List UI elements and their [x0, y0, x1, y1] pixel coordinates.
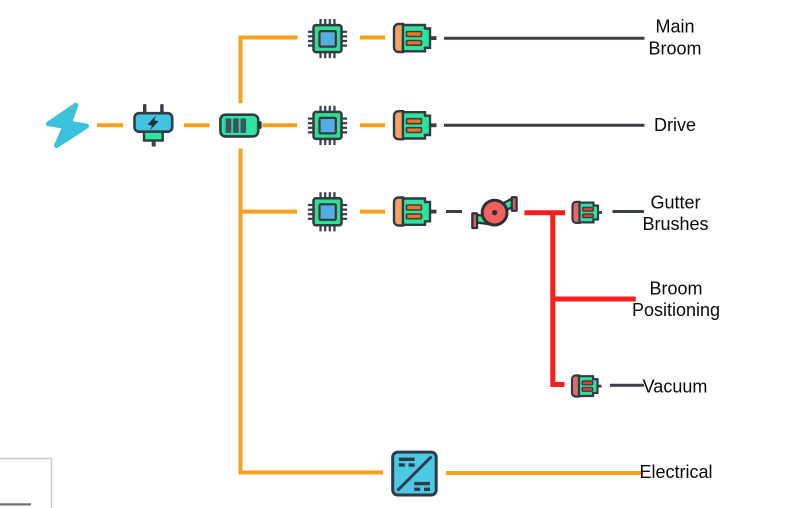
inverter U4 (DC/AC) — [393, 452, 437, 495]
vacuum motor M5 — [572, 376, 602, 397]
wire: orange dash row3 chip to motor — [360, 210, 385, 214]
microcontroller chip U3 (gutter brushes) — [308, 192, 347, 231]
power source lightning bolt — [49, 105, 87, 145]
wire: orange trunk below battery down to electrical row — [241, 149, 384, 473]
svg-text:Brushes: Brushes — [642, 214, 708, 234]
wire: orange dash row1 chip to motor — [360, 36, 385, 40]
wire: dark line motor1 to Main Broom label — [444, 37, 645, 40]
wire: dark line gutter motor to Gutter Brushes label — [613, 210, 645, 213]
wire: orange line inverter to Electrical label — [446, 471, 643, 475]
motor M3 (gutter brush drive) — [394, 198, 437, 226]
wire: orange feed to row1 chip (corner) — [241, 38, 298, 104]
wire: orange dash charger to battery — [184, 123, 210, 127]
svg-text:Broom: Broom — [649, 279, 702, 299]
svg-text:Vacuum: Vacuum — [643, 377, 708, 397]
motor M1 (main broom) — [394, 24, 437, 52]
microcontroller chip U1 (main broom) — [308, 19, 347, 58]
microcontroller chip U2 (drive) — [308, 106, 347, 145]
wire: dark line motor2 to Drive label — [444, 124, 645, 127]
wire: red vertical trunk with bottom corner to vacuum motor — [553, 213, 565, 385]
pump P1 — [472, 197, 516, 228]
wire: dark dash motor3 to pump — [446, 210, 462, 213]
ui fragment: gray panel bottom-left — [0, 459, 52, 508]
battery — [220, 115, 261, 137]
charger / AC adapter — [135, 104, 173, 147]
svg-text:Gutter: Gutter — [650, 193, 700, 213]
svg-text:Electrical: Electrical — [639, 462, 712, 482]
svg-text:Drive: Drive — [654, 115, 696, 135]
wire: orange dash lightning to charger — [97, 123, 123, 127]
wire: red branch to Broom Positioning label — [553, 297, 636, 302]
wire: orange branch to row3 chip — [241, 210, 298, 214]
gutter brushes motor M4 — [573, 202, 603, 223]
svg-text:Broom: Broom — [648, 39, 701, 59]
motor M2 (drive) — [394, 111, 437, 139]
svg-text:Positioning: Positioning — [632, 300, 720, 320]
wire: orange dash row2 chip to motor — [360, 123, 385, 127]
wire: dark line vacuum motor to Vacuum label — [610, 384, 644, 387]
wire: orange dash battery to row2 chip — [262, 123, 297, 127]
wire: red horizontal from pump through junction — [524, 210, 565, 215]
svg-text:Main: Main — [655, 17, 694, 37]
ui fragment: dark line in panel — [0, 503, 31, 505]
